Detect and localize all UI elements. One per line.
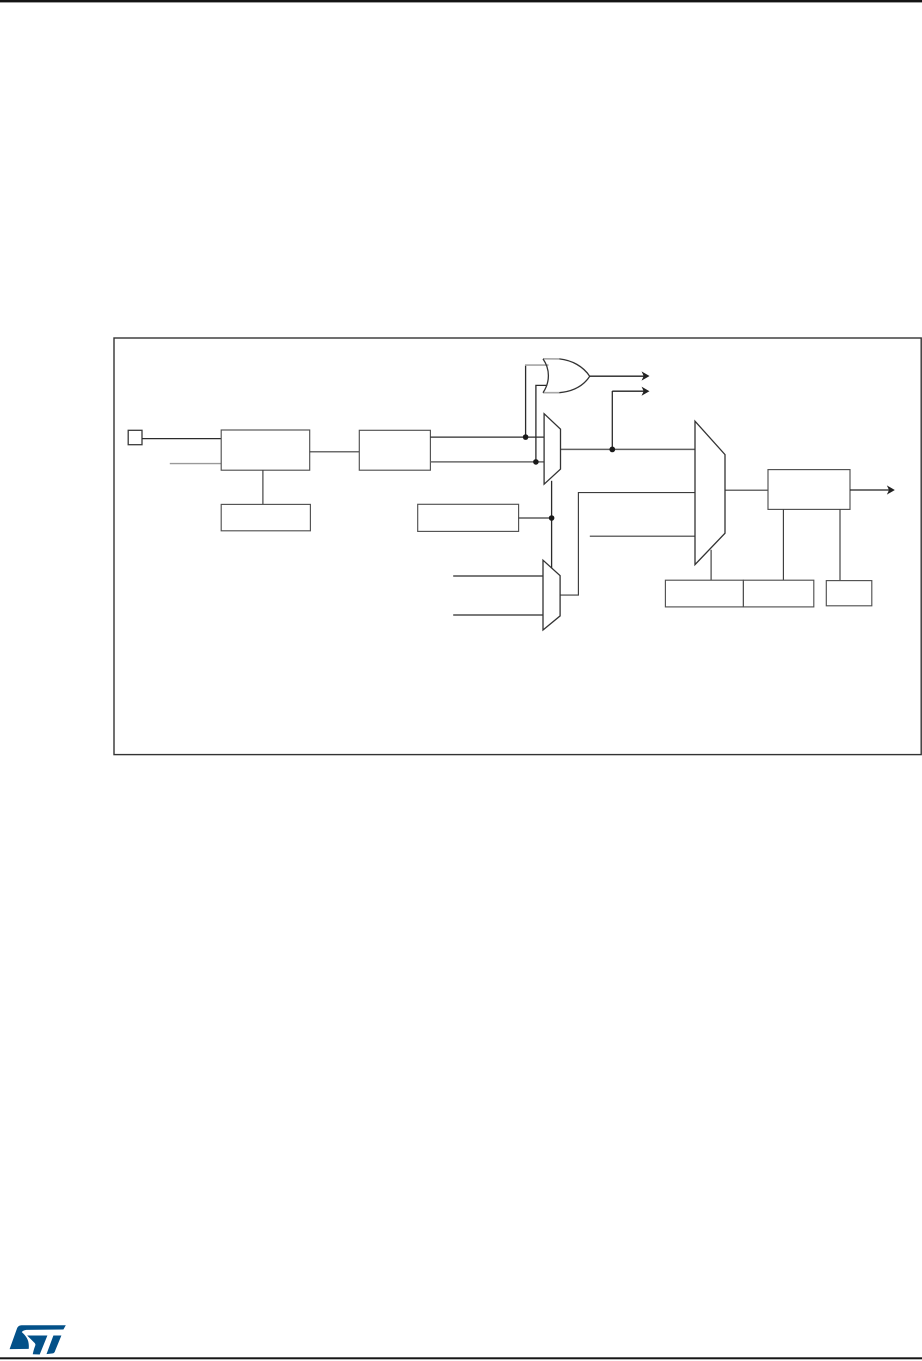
wire: oscillator to calibration register — [262, 470, 264, 504]
wire: mux U2 input 2 — [453, 614, 543, 616]
logo T funnel and stem — [27, 1335, 47, 1354]
footer rule — [0, 1357, 922, 1359]
wire: mux U2 input 1 — [453, 575, 543, 577]
ST logo — [10, 1325, 66, 1354]
wire: CPU divider select left — [782, 509, 784, 580]
wire: CPU divider select right — [839, 509, 841, 580]
logo T slash — [47, 1335, 62, 1354]
wire: oscillator to divider — [310, 451, 360, 453]
wire: enable input to oscillator (gray) — [170, 463, 221, 465]
or-gate U3 bottom flat segment (gray) — [543, 392, 559, 394]
logo S swoosh — [10, 1325, 66, 1349]
block: prescaler/divider — [359, 430, 430, 470]
figure frame — [114, 338, 921, 755]
block: register A — [665, 580, 743, 607]
block: register C — [826, 581, 872, 606]
node: junction mux output/arrow riser — [609, 447, 615, 453]
node: junction select line — [549, 515, 555, 521]
wire: divider output lower to mux U1 — [430, 461, 544, 463]
arrow: CPU clock output — [850, 489, 890, 491]
input pin square — [128, 430, 142, 444]
wire: select line to mux U1 and mux U2 — [551, 481, 553, 569]
block: oscillator — [221, 430, 310, 470]
block: control register — [418, 504, 519, 531]
block: CPU clock divider — [768, 470, 850, 510]
wire: OR gate input 1 stub (gray) — [525, 364, 549, 366]
wire: master mux output to CPU divider — [725, 489, 768, 491]
arrow: auxiliary clock output — [612, 390, 644, 392]
wire: master mux select from register A — [710, 550, 712, 580]
wire: riser node2 to OR gate input 2 — [536, 385, 547, 462]
wire: master mux lower input — [590, 535, 695, 537]
wire: riser node1 to OR gate input 1 — [525, 365, 527, 437]
mux U2 — [543, 560, 560, 630]
or-gate U3 body arcs — [543, 359, 590, 393]
block: calibration register — [221, 504, 310, 530]
arrow: OR gate output — [590, 375, 644, 377]
wire: mux U1 output to master mux — [561, 448, 696, 450]
header rule — [0, 0, 922, 2]
wire: control register to select node — [519, 517, 552, 519]
mux U1 — [544, 414, 560, 485]
mux U4 master clock switch — [695, 421, 725, 564]
node: junction divider/OR2 — [533, 459, 539, 465]
wire: pin to oscillator block — [142, 438, 221, 440]
or-gate U3 top flat segment (gray) — [543, 358, 559, 360]
node: junction divider/OR1 — [523, 434, 529, 440]
wire: mux U2 output riser to master mux — [560, 493, 695, 595]
block: register B — [743, 580, 813, 607]
wire: arrow2 riser from node3 — [611, 391, 613, 449]
wire: divider output upper to mux U1 — [430, 436, 544, 438]
